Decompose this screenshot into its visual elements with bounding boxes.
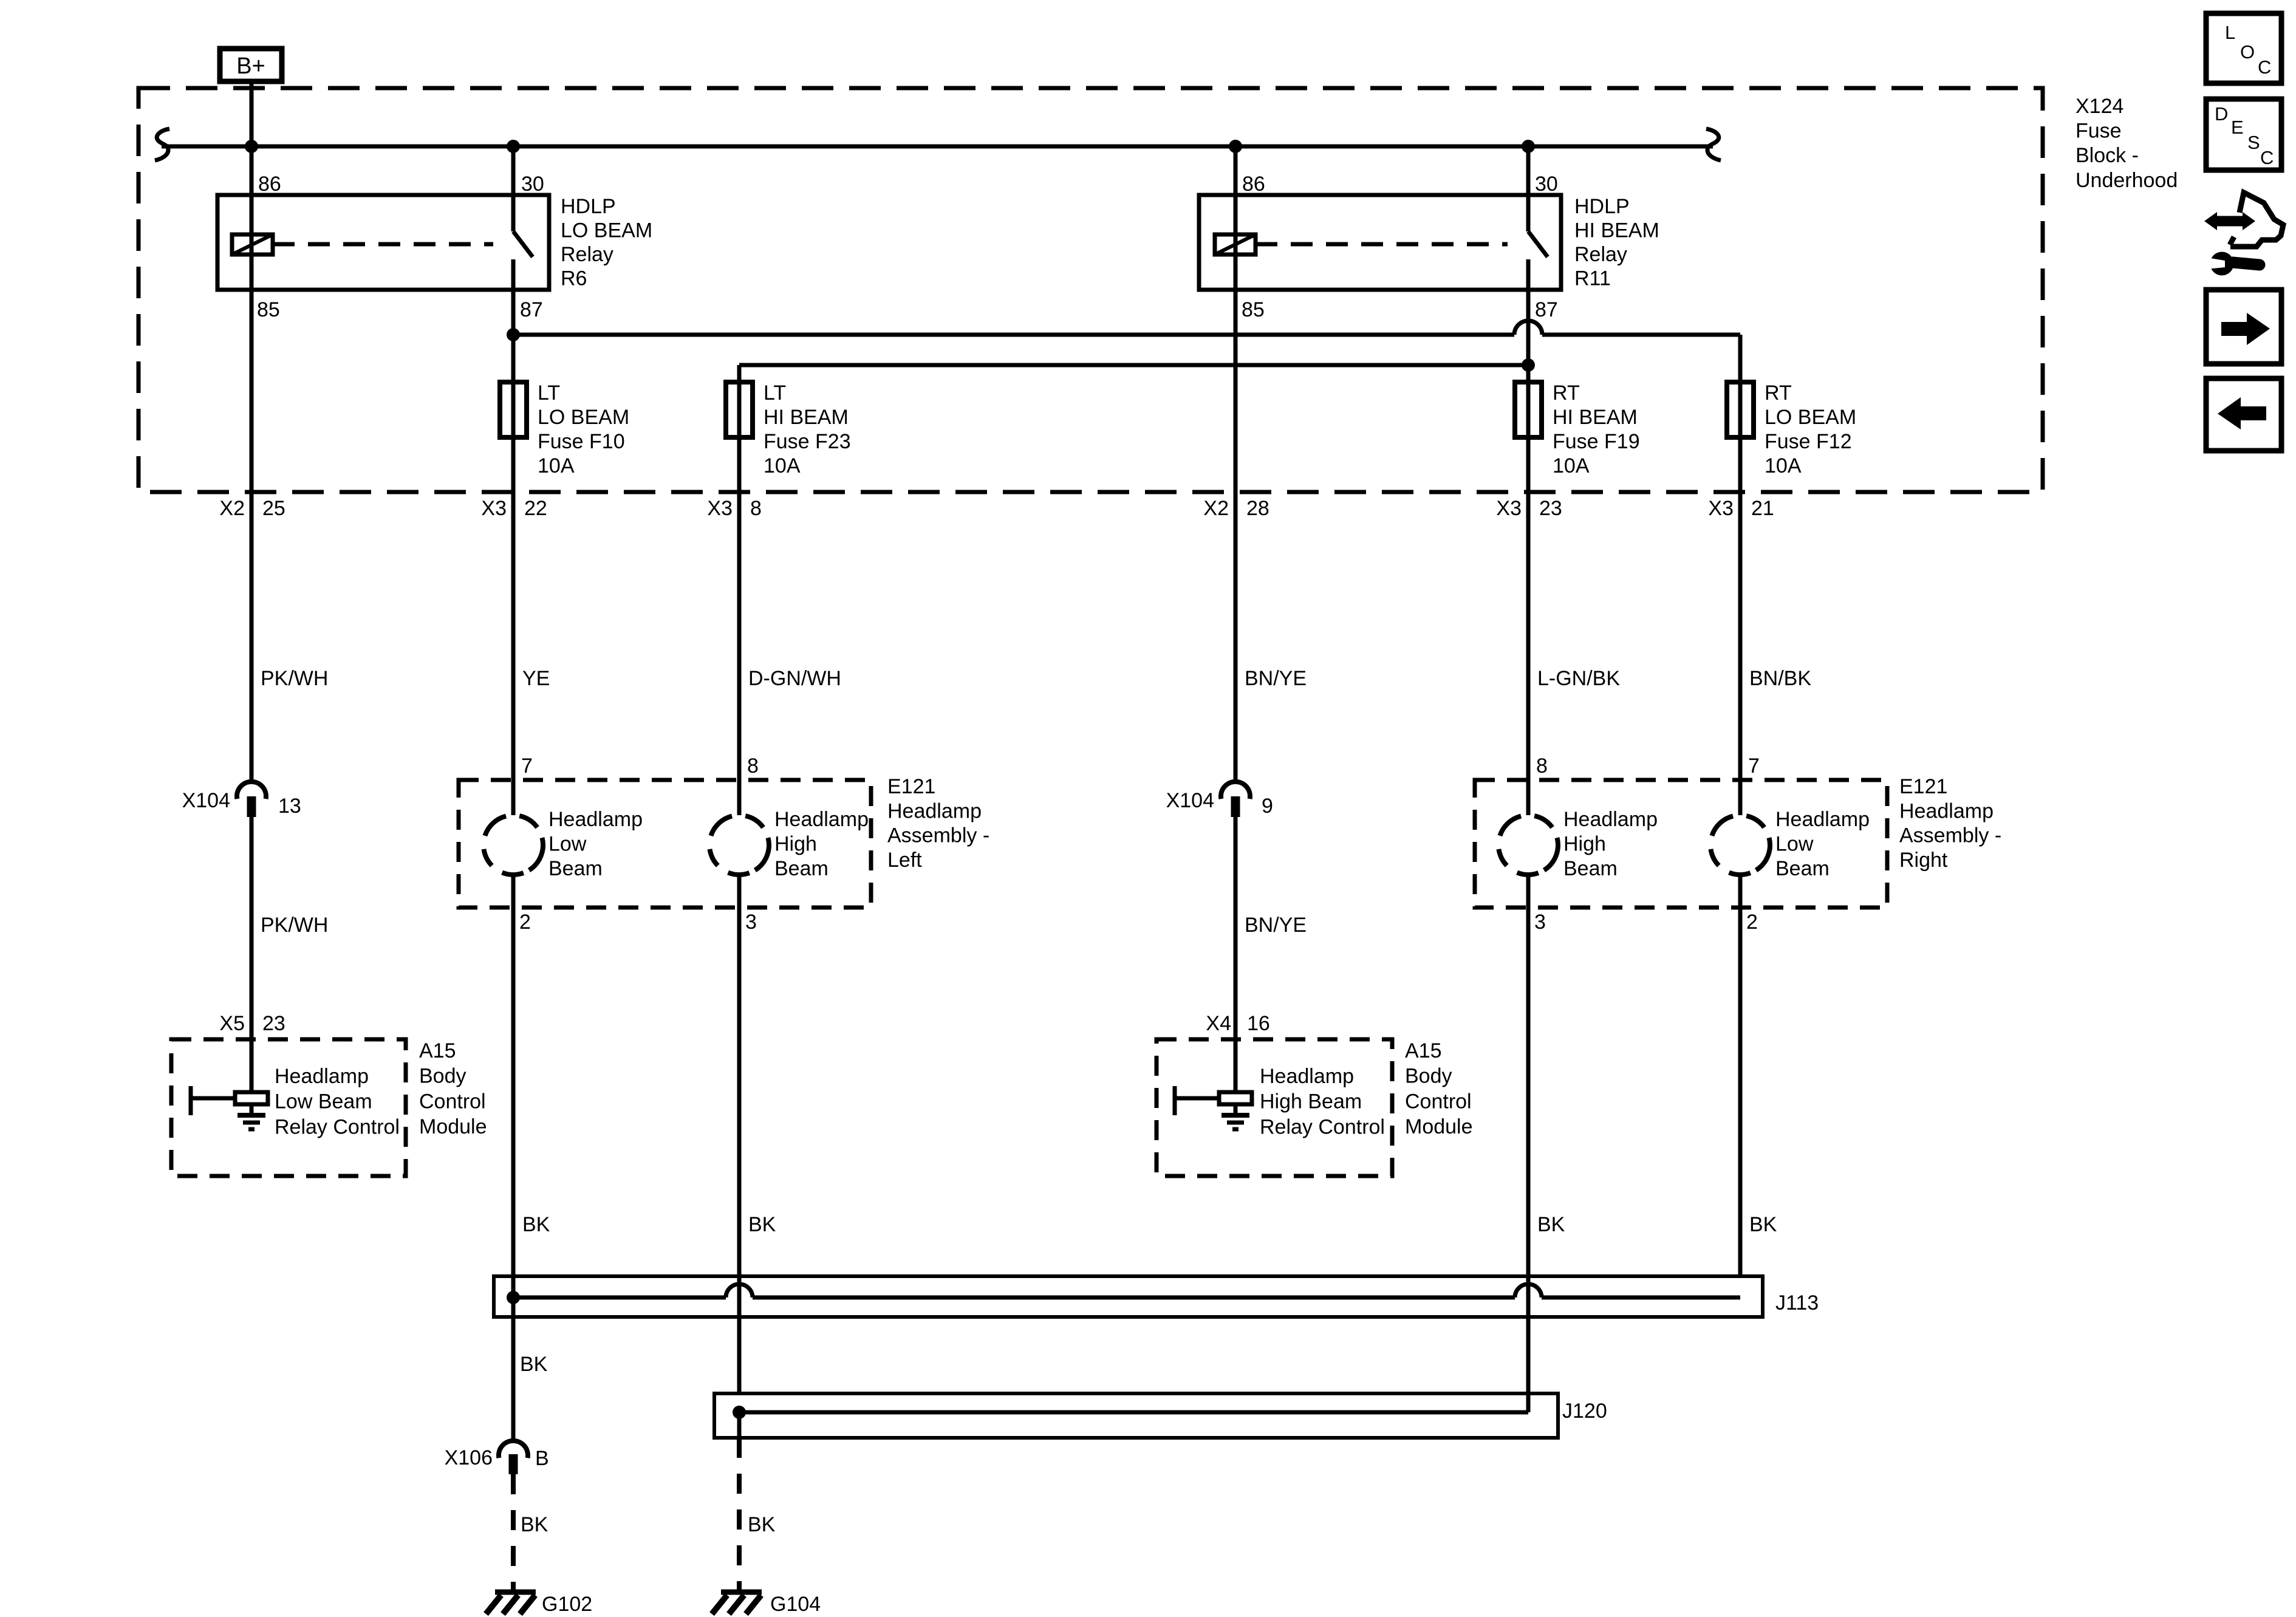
svg-text:86: 86 [1242,173,1265,196]
svg-text:13: 13 [278,795,301,818]
svg-text:R6: R6 [561,267,587,290]
svg-text:High Beam: High Beam [1260,1090,1362,1113]
BCM A15 left box (dashed) [171,1039,406,1176]
LOC box icon [2206,13,2281,83]
svg-text:Assembly -: Assembly - [887,824,989,847]
svg-text:Headlamp: Headlamp [548,808,643,831]
svg-text:Headlamp: Headlamp [887,799,982,822]
svg-text:C: C [2258,56,2271,78]
svg-text:B+: B+ [236,53,265,79]
svg-text:7: 7 [1748,754,1760,778]
fuse block X124 boundary (dashed) [138,88,2043,492]
junction block J113 box [494,1276,1763,1317]
svg-text:Control: Control [419,1090,486,1113]
svg-text:3: 3 [745,911,757,934]
svg-text:High: High [774,833,817,856]
svg-text:LO BEAM: LO BEAM [538,406,629,429]
svg-text:23: 23 [262,1012,285,1035]
ground G102 [495,1590,536,1595]
svg-text:30: 30 [521,173,544,196]
car location double arrow [2215,216,2245,227]
wire R11-87 down [1526,290,1531,382]
svg-text:Module: Module [419,1115,487,1138]
node bus/relay R6 pin30 [507,140,520,153]
relay R6 box [217,195,549,290]
connector X106 pin B [499,1441,528,1458]
svg-text:YE: YE [522,667,550,690]
svg-text:HDLP: HDLP [1574,195,1630,218]
svg-text:L: L [2225,22,2235,43]
ground G104 [721,1590,762,1595]
lamp left low beam bulb [484,816,543,875]
svg-text:Beam: Beam [774,857,829,880]
svg-text:Headlamp: Headlamp [275,1065,369,1088]
svg-text:BK: BK [1749,1213,1777,1236]
svg-text:BK: BK [522,1213,550,1236]
svg-text:7: 7 [521,754,533,778]
wire B+ to bus [250,81,254,146]
svg-text:9: 9 [1262,795,1273,818]
svg-text:23: 23 [1539,497,1562,520]
bus break symbol right [1706,129,1721,160]
svg-text:Low Beam: Low Beam [275,1090,372,1113]
svg-text:Relay: Relay [1574,243,1627,266]
svg-text:HI BEAM: HI BEAM [1553,406,1638,429]
relay R11 switch [1528,195,1548,290]
lamp right high beam bulb [1499,816,1558,875]
svg-text:2: 2 [519,911,531,934]
svg-text:X2: X2 [1203,497,1229,520]
svg-text:Headlamp: Headlamp [1899,799,1994,822]
svg-text:G102: G102 [542,1593,592,1616]
node J113 low beam [507,1291,520,1304]
svg-text:X5: X5 [219,1012,245,1035]
lamp right high beam wire down [1526,875,1531,1393]
svg-text:B: B [535,1447,549,1470]
svg-text:Module: Module [1405,1115,1473,1138]
node R6-87 feed [507,328,520,341]
relay R6 switch [513,195,533,290]
svg-text:Control: Control [1405,1090,1472,1113]
wire bus to R6 pin 86 [250,146,254,195]
battery feed terminal B+ [220,49,282,81]
wrench icon [2210,252,2234,276]
car location icon [2230,193,2283,247]
svg-text:10A: 10A [1553,454,1590,477]
svg-text:BK: BK [520,1353,548,1376]
svg-text:8: 8 [750,497,762,520]
svg-text:10A: 10A [538,454,575,477]
svg-text:LT: LT [538,381,560,405]
wire bus to R11 pin 86 [1234,146,1238,195]
svg-text:X4: X4 [1206,1012,1231,1035]
svg-text:Low: Low [548,833,587,856]
DESC box icon [2206,99,2281,170]
node hi-beam feed [1522,358,1535,372]
svg-text:D: D [2215,103,2228,125]
svg-text:X2: X2 [219,497,245,520]
power bus wire [162,145,1713,149]
svg-text:Relay: Relay [561,243,613,266]
node bus/B+ [245,140,258,153]
svg-text:X106: X106 [445,1446,493,1469]
svg-text:BK: BK [521,1513,548,1536]
svg-text:X3: X3 [1708,497,1734,520]
svg-text:Left: Left [887,849,922,872]
svg-text:10A: 10A [1765,454,1802,477]
relay R11 coil wire [1234,195,1238,290]
svg-text:8: 8 [747,754,759,778]
svg-text:RT: RT [1553,381,1580,405]
svg-text:16: 16 [1247,1012,1270,1035]
svg-text:X3: X3 [481,497,507,520]
svg-text:28: 28 [1246,497,1269,520]
wire F12 to X3-21 [1738,437,1743,815]
svg-text:X104: X104 [1166,789,1214,812]
fuse F23 LT HI BEAM [726,382,753,437]
node J120 high beam [733,1406,746,1419]
wire J120 to G104 (dashed) [737,1438,742,1590]
svg-text:L-GN/BK: L-GN/BK [1537,667,1620,690]
BCM high beam relay control driver [1175,1096,1219,1101]
headlamp assembly right box (dashed) [1475,780,1887,908]
fuse F10 LT LO BEAM [500,382,527,437]
node bus/relay R11 pin30 [1522,140,1535,153]
svg-text:X3: X3 [1496,497,1522,520]
junction block J120 box [714,1393,1558,1438]
lamp left low beam wire down [511,875,516,1276]
svg-text:Right: Right [1899,849,1948,872]
svg-text:Beam: Beam [548,857,603,880]
svg-text:Fuse F10: Fuse F10 [538,430,625,453]
svg-text:HI BEAM: HI BEAM [1574,219,1659,242]
wire F23 to X3-8 [737,437,742,815]
svg-text:Low: Low [1775,833,1814,856]
svg-text:A15: A15 [419,1039,456,1062]
svg-text:X124: X124 [2076,95,2123,118]
arrow left box icon [2206,378,2281,451]
connector X104 pin 13 [237,782,266,799]
wire bus to R6 pin 30 [511,146,516,195]
svg-text:BN/YE: BN/YE [1245,667,1307,690]
svg-text:O: O [2240,41,2255,63]
BCM low beam relay control driver [191,1096,235,1101]
svg-text:HI BEAM: HI BEAM [764,406,849,429]
svg-text:21: 21 [1751,497,1774,520]
svg-text:Assembly -: Assembly - [1899,824,2001,847]
BCM A15 right box (dashed) [1157,1039,1392,1176]
svg-text:X104: X104 [182,789,230,812]
svg-text:R11: R11 [1574,267,1611,290]
svg-text:Beam: Beam [1563,857,1618,880]
wire high-beam feed LT (from R11-87) [739,365,1528,382]
relay R11 box [1199,195,1561,290]
wire X104-9 to X4-16 [1234,817,1238,1091]
relay R6 link (dashed) [273,242,493,247]
wire R11-85 to X2-28 [1234,290,1238,781]
wire R6-85 to X2-25 [250,290,254,782]
svg-text:LT: LT [764,381,786,405]
svg-text:LO BEAM: LO BEAM [1765,406,1856,429]
wire J113 to X106 [511,875,516,1440]
svg-text:Headlamp: Headlamp [1563,808,1658,831]
wire bus to R11 pin 30 [1526,146,1531,195]
svg-text:8: 8 [1536,754,1548,778]
wire J120 down [737,1412,742,1438]
svg-text:D-GN/WH: D-GN/WH [748,667,841,690]
lamp right low beam bulb [1711,816,1770,875]
svg-text:PK/WH: PK/WH [261,667,328,690]
relay R6 coil [232,234,273,255]
svg-text:E: E [2231,117,2244,138]
node bus/relay R11 pin86 [1229,140,1242,153]
svg-text:Fuse: Fuse [2076,120,2122,143]
svg-text:BN/YE: BN/YE [1245,914,1307,937]
svg-text:87: 87 [520,298,543,321]
svg-text:BK: BK [1537,1213,1565,1236]
junction block J120 bus [739,1317,1528,1412]
arrow right box icon [2206,290,2281,364]
bus break symbol left [155,129,169,160]
wire F19 to X3-23 [1526,437,1531,815]
svg-text:2: 2 [1746,911,1758,934]
svg-text:Beam: Beam [1775,857,1830,880]
svg-text:BK: BK [748,1513,776,1536]
svg-text:HDLP: HDLP [561,195,616,218]
svg-text:Fuse F19: Fuse F19 [1553,430,1640,453]
lamp left high beam bulb [710,816,769,875]
svg-text:S: S [2247,132,2260,153]
svg-text:Body: Body [419,1065,466,1088]
svg-text:86: 86 [258,173,281,196]
svg-text:PK/WH: PK/WH [261,914,328,937]
svg-text:Fuse F12: Fuse F12 [1765,430,1852,453]
lamp left high beam wire down [737,875,742,1393]
svg-text:X3: X3 [707,497,733,520]
svg-text:25: 25 [262,497,285,520]
svg-text:BN/BK: BN/BK [1749,667,1811,690]
svg-text:3: 3 [1534,911,1546,934]
connector X104 pin 9 [1221,782,1250,799]
headlamp assembly left box (dashed) [459,780,871,908]
svg-text:Block -: Block - [2076,144,2139,167]
svg-text:30: 30 [1535,173,1558,196]
relay R11 link (dashed) [1256,242,1508,247]
svg-text:LO BEAM: LO BEAM [561,219,652,242]
wire X106 to G102 (dashed) [511,1474,516,1590]
lamp right low beam wire down [1738,875,1743,1276]
svg-text:85: 85 [257,298,280,321]
wire low-beam feed to RT (hop over wire5) [513,321,1740,382]
svg-text:22: 22 [524,497,547,520]
svg-text:Underhood: Underhood [2076,169,2178,192]
svg-text:Headlamp: Headlamp [774,808,869,831]
svg-text:Body: Body [1405,1065,1452,1088]
svg-text:Headlamp: Headlamp [1260,1065,1354,1088]
svg-text:High: High [1563,833,1606,856]
svg-text:Fuse F23: Fuse F23 [764,430,851,453]
svg-text:Relay Control: Relay Control [275,1115,400,1138]
wire R6-87 down [511,290,516,382]
svg-text:A15: A15 [1405,1039,1442,1062]
svg-text:10A: 10A [764,454,801,477]
fuse F19 RT HI BEAM [1515,382,1542,437]
svg-text:BK: BK [748,1213,776,1236]
wire X104-13 to X5-23 [250,817,254,1092]
relay R6 coil wire [250,195,254,290]
svg-text:Relay Control: Relay Control [1260,1115,1385,1138]
wire F10 to X3-22 [511,437,516,815]
svg-text:85: 85 [1242,298,1265,321]
svg-text:RT: RT [1765,381,1792,405]
svg-text:C: C [2260,147,2274,168]
svg-text:Headlamp: Headlamp [1775,808,1870,831]
svg-text:E121: E121 [1899,775,1947,798]
svg-text:E121: E121 [887,775,935,798]
svg-text:87: 87 [1535,298,1558,321]
svg-text:J120: J120 [1562,1400,1607,1423]
relay R11 coil [1215,234,1256,255]
junction block J113 bus [513,1284,1740,1297]
svg-text:G104: G104 [770,1593,821,1616]
svg-text:J113: J113 [1775,1291,1819,1314]
fuse F12 RT LO BEAM [1727,382,1754,437]
